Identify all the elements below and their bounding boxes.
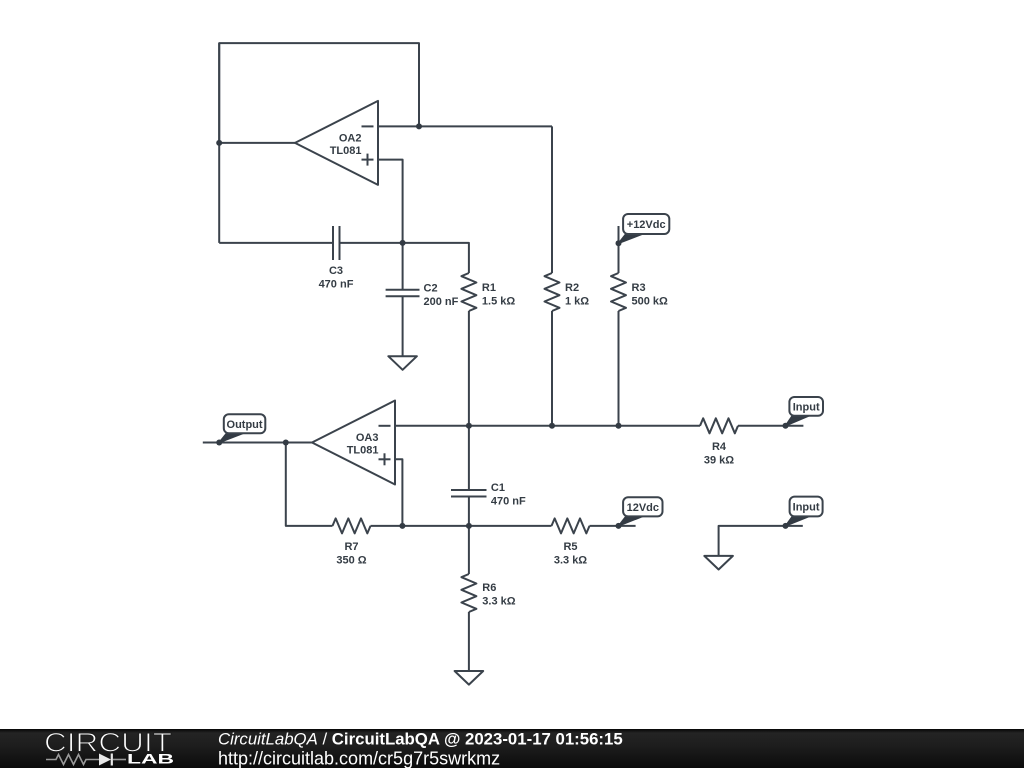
op-amp OA3 TL081 — [312, 401, 395, 485]
wire R3 column from +12Vdc pin down — [618, 226, 620, 273]
svg-text:LAB: LAB — [127, 752, 174, 767]
svg-text:OA2: OA2 — [339, 132, 362, 144]
wire OA2 output (apex) to left column — [219, 142, 295, 144]
node 12Vdc flag pin — [616, 523, 622, 529]
svg-text:Input: Input — [793, 502, 820, 514]
capacitor C2 200 nF — [386, 283, 459, 309]
flag +12Vdc (power) — [619, 214, 670, 243]
capacitor C3 470 nF — [319, 226, 354, 291]
svg-text:R5: R5 — [563, 541, 577, 553]
node main row / C1 junction — [466, 423, 472, 429]
node Input flag pin (top) — [783, 423, 789, 429]
svg-text:39 kΩ: 39 kΩ — [704, 455, 734, 467]
svg-text:R2: R2 — [565, 282, 579, 294]
svg-text:200 nF: 200 nF — [424, 296, 459, 308]
resistor R5 3.3 k — [552, 518, 590, 566]
ground under C2 — [388, 356, 417, 370]
wire C1 top lead — [468, 426, 470, 490]
svg-text:R4: R4 — [712, 441, 727, 453]
svg-text:1 kΩ: 1 kΩ — [565, 296, 589, 308]
node OA2 output junction — [216, 140, 222, 146]
wire main node row: OA3 inverting input to R4 — [395, 425, 700, 427]
resistor R2 1 k — [545, 273, 590, 311]
node main row / R3 junction — [616, 423, 622, 429]
svg-text:3.3 kΩ: 3.3 kΩ — [482, 596, 515, 608]
op-amp OA2 TL081 — [295, 101, 378, 185]
svg-text:CircuitLabQA / CircuitLabQA @: CircuitLabQA / CircuitLabQA @ 2023-01-17… — [218, 729, 623, 748]
resistor R1 1.5 k — [461, 273, 515, 311]
wire C2 top lead — [402, 243, 404, 290]
wire R6 top lead — [468, 526, 470, 574]
svg-text:500 kΩ: 500 kΩ — [632, 296, 669, 308]
wire feedback branch down to R7 row — [286, 443, 333, 526]
wire C3 row right segment to R1 column — [340, 243, 469, 273]
ground on Input 2 branch — [704, 556, 733, 570]
wire R2 column lower — [551, 311, 553, 426]
node main row / R2 junction — [549, 423, 555, 429]
svg-text:1.5 kΩ: 1.5 kΩ — [482, 296, 515, 308]
node R7 row / OA3 + junction — [399, 523, 405, 529]
flag Output — [219, 414, 265, 442]
flag Input (top, via R4) — [786, 397, 824, 426]
ground under R6 — [455, 671, 484, 685]
svg-text:C1: C1 — [491, 482, 505, 494]
svg-text:R6: R6 — [482, 582, 496, 594]
svg-text:C2: C2 — [424, 283, 438, 295]
svg-text:TL081: TL081 — [330, 145, 362, 157]
resistor R6 3.3 k — [461, 574, 515, 612]
capacitor C1 470 nF — [451, 482, 526, 508]
svg-text:R3: R3 — [632, 282, 646, 294]
node output feedback junction — [283, 440, 289, 446]
wire R5 right to 12Vdc pin — [590, 525, 636, 527]
wire C2 bottom lead to ground — [402, 296, 404, 356]
wire OA2 inverting input to R2 column — [378, 125, 552, 127]
logo doodle: wire + resistor + diode — [46, 755, 126, 765]
svg-text:12Vdc: 12Vdc — [627, 502, 659, 514]
node +12Vdc flag pin — [616, 240, 622, 246]
svg-text:TL081: TL081 — [347, 444, 379, 456]
wire R4 right side to Input pin — [738, 425, 803, 427]
svg-text:350 Ω: 350 Ω — [336, 555, 366, 567]
svg-text:3.3 kΩ: 3.3 kΩ — [554, 555, 587, 567]
node Input flag pin (bottom) — [783, 523, 789, 529]
wire Output row to OA3 apex — [203, 442, 312, 444]
svg-text:470 nF: 470 nF — [319, 279, 354, 291]
svg-text:Input: Input — [793, 401, 820, 413]
node Output flag pin — [216, 440, 222, 446]
svg-text:Output: Output — [227, 419, 263, 431]
wire C1 column to R5 — [469, 525, 552, 527]
wire left column down to C3 row — [218, 43, 220, 243]
svg-text:+12Vdc: +12Vdc — [627, 219, 666, 231]
flag Input (bottom, grounded) — [786, 497, 823, 526]
resistor R7 350 ohm — [333, 518, 371, 566]
svg-text:R1: R1 — [482, 282, 496, 294]
svg-text:C3: C3 — [329, 265, 343, 277]
svg-text:R7: R7 — [344, 541, 358, 553]
wire R7 to C1 column — [371, 525, 469, 527]
wire R1 bottom to main node row — [468, 311, 470, 426]
svg-text:OA3: OA3 — [356, 432, 379, 444]
wire OA2 non-inverting input down to C3/C2 node — [378, 160, 403, 243]
wire Input 2 to ground branch — [719, 526, 803, 556]
wire C3 row left segment — [219, 242, 333, 244]
node feedback/inverting junction — [416, 123, 422, 129]
flag 12Vdc (power) — [619, 497, 663, 526]
node R7 row / C1-R6 junction — [466, 523, 472, 529]
wire C1 bottom lead — [468, 497, 470, 526]
wire R6 bottom lead to ground — [468, 612, 470, 671]
resistor R4 39 k — [700, 418, 738, 466]
svg-text:http://circuitlab.com/cr5g7r5s: http://circuitlab.com/cr5g7r5swrkmz — [218, 748, 500, 768]
wire top feedback box from OA2 output node to inverting net — [219, 43, 419, 144]
node C3/C2/non-inverting junction — [400, 240, 406, 246]
wire R3 bottom to main node row — [618, 311, 620, 426]
wire R2 column upper — [551, 126, 553, 273]
wire OA3 non-inverting input down to R7 row — [395, 459, 402, 526]
svg-text:470 nF: 470 nF — [491, 496, 526, 508]
resistor R3 500 k — [611, 273, 668, 311]
